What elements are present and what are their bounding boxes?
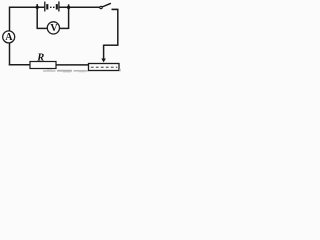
svg-text:V: V [50,23,58,34]
svg-text:A: A [5,32,13,43]
svg-text:R: R [36,53,44,64]
